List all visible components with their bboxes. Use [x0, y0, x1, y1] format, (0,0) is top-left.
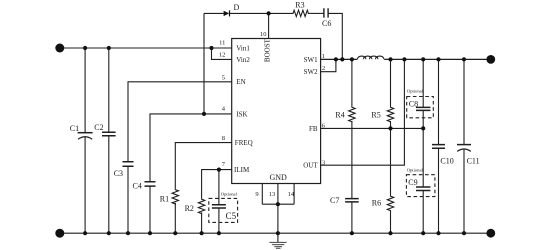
svg-text:Vin1: Vin1: [236, 44, 250, 52]
svg-text:R6: R6: [372, 198, 381, 207]
svg-text:C9: C9: [408, 178, 417, 187]
svg-text:5: 5: [222, 74, 225, 81]
svg-text:Vin2: Vin2: [236, 56, 250, 64]
svg-text:SW2: SW2: [304, 68, 319, 76]
svg-text:9: 9: [255, 191, 258, 198]
svg-text:R2: R2: [185, 204, 194, 213]
svg-text:4: 4: [222, 106, 226, 113]
svg-text:FREQ: FREQ: [235, 139, 253, 147]
svg-text:C8: C8: [409, 100, 418, 109]
svg-text:2: 2: [322, 65, 325, 72]
svg-text:FB: FB: [309, 125, 318, 133]
svg-text:C10: C10: [440, 157, 453, 166]
svg-text:7: 7: [222, 161, 226, 168]
svg-text:11: 11: [219, 40, 225, 47]
svg-text:OUT: OUT: [303, 162, 318, 170]
svg-text:C5: C5: [226, 211, 237, 221]
svg-text:12: 12: [219, 51, 226, 58]
svg-text:C7: C7: [330, 196, 339, 205]
svg-text:Optional: Optional: [407, 167, 424, 172]
svg-text:R3: R3: [295, 1, 304, 10]
svg-text:R1: R1: [160, 194, 169, 203]
svg-text:SW1: SW1: [304, 56, 319, 64]
svg-text:ISK: ISK: [236, 110, 247, 118]
svg-text:R5: R5: [371, 111, 380, 120]
svg-text:3: 3: [322, 159, 325, 166]
svg-text:Optional: Optional: [221, 192, 238, 197]
svg-text:10: 10: [260, 31, 267, 38]
svg-text:1: 1: [322, 53, 325, 60]
svg-text:R4: R4: [335, 111, 344, 120]
svg-text:8: 8: [222, 135, 225, 142]
svg-text:ILIM: ILIM: [234, 166, 250, 174]
svg-text:14: 14: [288, 191, 295, 198]
svg-text:C1: C1: [70, 124, 79, 133]
svg-text:C4: C4: [133, 181, 142, 190]
svg-text:C2: C2: [94, 123, 103, 132]
svg-text:Optional: Optional: [407, 88, 424, 93]
svg-text:C6: C6: [322, 19, 331, 28]
svg-text:C3: C3: [114, 169, 123, 178]
svg-text:GND: GND: [270, 173, 288, 182]
svg-text:BOOST: BOOST: [263, 38, 271, 62]
svg-text:D: D: [234, 3, 240, 12]
svg-text:13: 13: [269, 191, 276, 198]
svg-text:C11: C11: [467, 157, 480, 166]
svg-text:EN: EN: [236, 78, 245, 86]
